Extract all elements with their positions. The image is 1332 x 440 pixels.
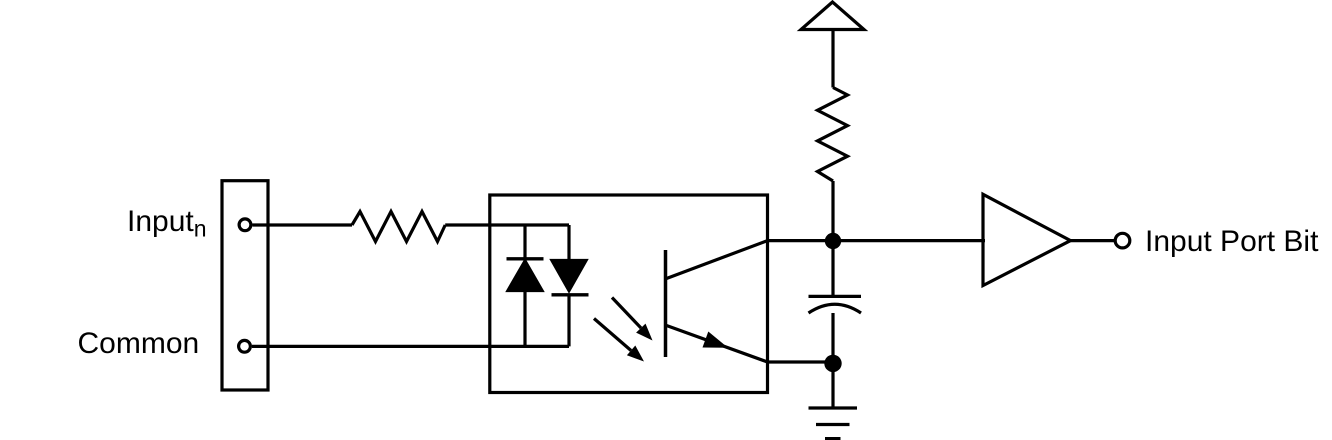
- output terminal circle: [1115, 233, 1130, 248]
- wire resistor R2 to node A: [831, 181, 834, 240]
- phototransistor Q1: [666, 241, 768, 362]
- resistor R2: [818, 88, 848, 182]
- wire input terminal to resistor: [253, 223, 353, 226]
- node B junction dot: [824, 355, 841, 372]
- wire emitter to node B: [768, 360, 834, 363]
- wire node B to ground: [831, 364, 834, 409]
- terminal circle Input: [239, 219, 251, 231]
- wire node A to capacitor: [831, 241, 834, 295]
- capacitor C1: [809, 296, 862, 313]
- LED branch left wire: [523, 225, 526, 346]
- wire buffer output: [1071, 239, 1115, 242]
- optocoupler U1 box: [490, 195, 768, 393]
- wire common: [252, 345, 569, 348]
- node A junction dot: [825, 233, 841, 249]
- terminal circle Common: [239, 340, 251, 352]
- buffer U2: [983, 194, 1071, 285]
- terminal block: [222, 181, 268, 390]
- LED D2 (down): [552, 261, 589, 295]
- wire collector to node A: [768, 239, 986, 242]
- svg-text:Inputn: Inputn: [127, 205, 207, 242]
- light arrow 2: [594, 319, 644, 362]
- svg-text:Common: Common: [78, 327, 200, 360]
- light arrow 1: [612, 298, 653, 341]
- svg-text:Input Port Bit: Input Port Bit: [1145, 225, 1319, 258]
- wire resistor to LED anode: [445, 223, 569, 226]
- wire power to resistor R2: [831, 30, 834, 88]
- power symbol: [801, 2, 864, 30]
- LED branch right wire: [567, 225, 570, 346]
- LED D1 (up): [507, 259, 544, 291]
- wire capacitor to node B: [831, 313, 834, 364]
- ground: [809, 408, 858, 439]
- resistor R1: [352, 212, 445, 242]
